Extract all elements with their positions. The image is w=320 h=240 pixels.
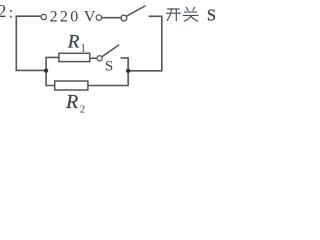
- svg-text::: :: [9, 5, 13, 22]
- caption fragment "2:": [0, 1, 13, 21]
- junction dot right: [126, 69, 130, 73]
- resistor R2 box: [55, 81, 88, 90]
- hanzi 关: [183, 7, 198, 21]
- terminal circle right: [96, 15, 101, 20]
- label R1: [67, 31, 86, 54]
- junction dot left: [44, 68, 48, 72]
- svg-text:2: 2: [0, 1, 7, 21]
- label 开关 S: [166, 7, 198, 21]
- wire terminal to switch pivot: [102, 17, 121, 19]
- svg-text:R: R: [67, 31, 80, 52]
- wire switch S contact stub, middle vertical, R2 right wire: [88, 58, 128, 86]
- svg-text:V: V: [84, 9, 96, 26]
- svg-text:S: S: [207, 6, 216, 25]
- resistor R1 box: [59, 53, 90, 61]
- main switch blade: [126, 6, 145, 17]
- wire R1 right to switch S: [90, 57, 97, 59]
- svg-text:S: S: [105, 58, 113, 74]
- svg-text:2: 2: [80, 103, 86, 115]
- switch S pivot circle: [97, 56, 102, 61]
- svg-text:R: R: [65, 91, 78, 113]
- hanzi 开: [166, 9, 180, 21]
- label R2: [65, 91, 85, 115]
- main switch pivot circle: [121, 15, 127, 21]
- svg-text:220: 220: [50, 9, 81, 26]
- switch S blade: [102, 45, 119, 57]
- wire R1 left and left branch vertical and R2 left wire: [46, 57, 59, 85]
- wire fixed contact and right rail down: [128, 16, 162, 71]
- terminal circle left: [41, 14, 46, 19]
- wire left rail and bottom feed: [16, 16, 46, 70]
